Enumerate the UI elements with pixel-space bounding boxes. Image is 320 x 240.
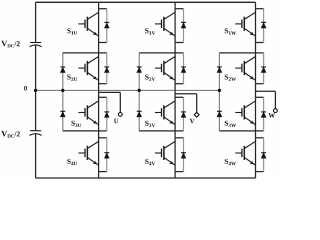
label 0 (neutral point) (24, 86, 27, 91)
transistor S1U (IGBT) (78, 12, 98, 36)
diode D1U antiparallel (104, 21, 109, 23)
wire: antiparallel diode branch vertical S4V (183, 138, 185, 172)
label S4V (145, 159, 155, 165)
wire: phase U output drop (119, 92, 121, 112)
transistor S4U (IGBT) (78, 141, 98, 165)
wire: bottom connector of cell S4V (175, 171, 183, 173)
wire: antiparallel diode branch vertical S1V (183, 9, 185, 43)
capacitor C1 (Vdc/2 upper) (30, 43, 42, 47)
clamp diode lower phase W (217, 110, 222, 112)
wire: DC bus upper segment (35, 2, 37, 42)
wire: antiparallel diode branch vertical S2V (183, 53, 185, 84)
wire: S1W/S2W junction to clamp and diode branch (219, 52, 263, 54)
wire: top connector of cell S1W (256, 8, 264, 10)
wire: clamp branch vertical phase U (62, 53, 64, 131)
wire: antiparallel diode branch vertical S3W (263, 97, 265, 131)
wire: phase U output tap (99, 91, 121, 93)
clamp diode upper phase U (60, 66, 65, 68)
node: clamp-neutral junction dot phase U (61, 89, 64, 92)
wire: bottom connector of cell S2W (256, 83, 264, 85)
wire: bottom connector of cell S1U (99, 42, 107, 44)
wire: phase V output drop (196, 94, 198, 113)
diode D3V antiparallel (181, 111, 186, 113)
wire: S3V/S4V junction to clamp and diode branch (139, 130, 183, 132)
transistor S2V (IGBT) (155, 57, 175, 81)
wire: top connector of cell S1V (175, 8, 183, 10)
wire: top connector of cell S1U (99, 8, 107, 10)
transistor S1W (IGBT) (235, 12, 255, 36)
wire: antiparallel diode branch vertical S1W (263, 9, 265, 43)
wire: antiparallel diode branch vertical S4U (106, 138, 108, 172)
wire: bottom connector of cell S1W (256, 42, 264, 44)
wire: S1V/S2V junction to clamp and diode branch (139, 52, 183, 54)
label S1U (67, 28, 77, 34)
node: clamp-neutral junction dot phase V (138, 89, 141, 92)
diode D4U antiparallel (104, 152, 109, 154)
wire: phase W output drop (274, 91, 276, 108)
label S4W (225, 159, 236, 165)
wire: bottom connector of cell S4U (99, 171, 107, 173)
label V output (190, 119, 195, 124)
label S3W (225, 121, 236, 127)
wire: S3W/S4W junction to clamp and diode branch (219, 130, 263, 132)
label S3V (145, 121, 155, 127)
wire: phase W output tap (256, 90, 276, 92)
wire: top connector of cell S4V (175, 137, 183, 139)
wire: phase U leg vertical (98, 2, 100, 178)
wire: negative DC rail (bottom) (36, 177, 256, 179)
transistor S3W (IGBT) (235, 101, 255, 125)
wire: positive DC rail (top) (36, 1, 256, 3)
wire: bottom connector of cell S1V (175, 42, 183, 44)
clamp diode lower phase U (60, 110, 65, 112)
wire: top connector of cell S3W (256, 96, 264, 98)
wire: top connector of cell S4U (99, 137, 107, 139)
wire: phase V leg vertical (174, 2, 176, 178)
wire: antiparallel diode branch vertical S1U (106, 9, 108, 43)
label W output (268, 113, 275, 118)
label S1V (145, 28, 155, 34)
node 0 junction dot at DC-link midpoint (34, 89, 37, 92)
wire: antiparallel diode branch vertical S2U (106, 53, 108, 84)
label S2V (145, 75, 155, 81)
wire: S1U/S2U junction to clamp and diode branch (63, 52, 107, 54)
label S3U (71, 121, 81, 127)
label S4U (67, 159, 77, 165)
transistor S2U (IGBT) (78, 57, 98, 81)
wire: bottom connector of cell S2V (175, 83, 183, 85)
diode D2W antiparallel (261, 66, 266, 68)
transistor S2W (IGBT) (235, 57, 255, 81)
label S1W (225, 28, 236, 34)
wire: DC bus lower segment (35, 134, 37, 178)
diode D3U antiparallel (104, 111, 109, 113)
diode D4V antiparallel (181, 152, 186, 154)
terminal U (output circle) (118, 113, 122, 117)
wire: antiparallel diode branch vertical S4W (263, 138, 265, 172)
diode D1W antiparallel (261, 21, 266, 23)
diode D4W antiparallel (261, 152, 266, 154)
wire: antiparallel diode branch vertical S3U (106, 97, 108, 131)
transistor S3U (IGBT) (78, 101, 98, 125)
capacitor C2 (Vdc/2 lower) (30, 131, 42, 136)
wire: DC bus middle segment (35, 45, 37, 130)
wire: neutral point bus (node 0) (36, 89, 220, 91)
label Vdc/2 upper (1, 41, 20, 48)
terminal V (output diamond) (194, 112, 199, 117)
wire: top connector of cell S4W (256, 137, 264, 139)
node: clamp-neutral junction dot phase W (218, 89, 221, 92)
wire: clamp branch vertical phase V (138, 53, 140, 131)
clamp diode upper phase W (217, 66, 222, 68)
transistor S3V (IGBT) (155, 101, 175, 125)
diode D2V antiparallel (181, 66, 186, 68)
wire: bottom connector of cell S2U (99, 83, 107, 85)
label S2W (225, 75, 236, 81)
diode D2U antiparallel (104, 66, 109, 68)
transistor S1V (IGBT) (155, 12, 175, 36)
diode D1V antiparallel (181, 21, 186, 23)
clamp diode upper phase V (137, 66, 142, 68)
wire: top connector of cell S3U (99, 96, 107, 98)
wire: phase W leg vertical (255, 2, 257, 178)
wire: S3U/S4U junction to clamp and diode branch (63, 130, 107, 132)
wire: antiparallel diode branch vertical S3V (183, 97, 185, 131)
label U output (114, 119, 119, 124)
wire: bottom connector of cell S4W (256, 171, 264, 173)
transistor S4V (IGBT) (155, 141, 175, 165)
wire: phase V output tap (175, 93, 197, 95)
label Vdc/2 lower (1, 131, 20, 138)
terminal W (output circle) (274, 109, 278, 113)
diode D3W antiparallel (261, 111, 266, 113)
wire: top connector of cell S3V (175, 96, 183, 98)
clamp diode lower phase V (137, 110, 142, 112)
wire: clamp branch vertical phase W (218, 53, 220, 131)
label S2U (67, 75, 77, 81)
transistor S4W (IGBT) (235, 141, 255, 165)
wire: antiparallel diode branch vertical S2W (263, 53, 265, 84)
